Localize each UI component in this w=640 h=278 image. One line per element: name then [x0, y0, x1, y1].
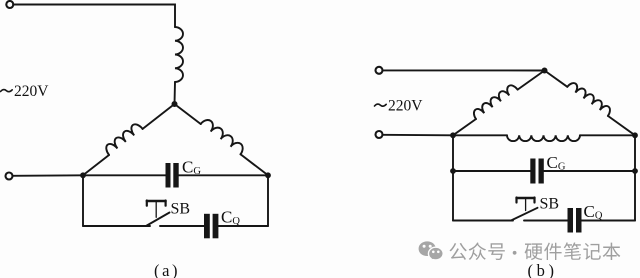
wire middle rail left to CG (b) [453, 170, 530, 172]
label ~220V (a) [1, 83, 50, 100]
wire apex to left coil (b) [518, 71, 545, 90]
label ~220V (b) [375, 98, 424, 115]
inductor left winding L2 (a) [106, 124, 142, 155]
wire capacitor CQ to right rail (a) [218, 225, 268, 227]
wire left coil to node A (a) [83, 155, 109, 175]
wire star point to left coil (a) [143, 104, 175, 129]
svg-text:CG: CG [547, 153, 566, 173]
wire T2 to node A (a) [12, 174, 83, 177]
capacitor CQ (a) plates [204, 214, 218, 239]
wire bottom rail middle segment (a) [160, 225, 204, 227]
terminal T2 (circuit a, lower supply terminal) [6, 173, 13, 180]
capacitor CG (b) plates [530, 159, 544, 184]
wire node C down to bottom rail (b) [452, 135, 454, 220]
wire bottom coil to node D (b) [580, 134, 635, 136]
wire T4 to node C (b) [382, 134, 453, 137]
wire T3 to apex node (b) [382, 69, 544, 71]
svg-text:CG: CG [182, 158, 201, 178]
inductor bottom winding L6 (b) [507, 135, 580, 141]
inductor main winding L1 (a, vertical) [175, 27, 183, 82]
wire apex to right coil (b) [545, 71, 568, 87]
node middle rail right (b) [632, 168, 638, 174]
wire node D down to bottom rail (b) [634, 135, 636, 220]
wire node A down (a) [82, 175, 84, 226]
inductor left winding L4 (b) [474, 85, 518, 119]
wire capacitor CQ to right rail (b) [582, 220, 636, 222]
svg-text:(b): (b) [528, 261, 558, 278]
watermark wechat icon eyes [423, 245, 440, 253]
svg-text:(a): (a) [154, 261, 180, 278]
inductor right winding L5 (b) [567, 83, 610, 116]
inductor right winding L3 (a) [201, 120, 243, 154]
wire star point to right coil (a) [175, 104, 201, 124]
watermark wechat icon [419, 241, 444, 260]
svg-text:SB: SB [171, 201, 191, 218]
wire T1 to top of main winding (a) [13, 5, 175, 28]
watermark text 公众号·硬件笔记本 (as paths) [450, 242, 621, 260]
wire coil L1 bottom to star point (a) [174, 82, 177, 104]
terminal T1 (circuit a, upper supply terminal) [6, 1, 13, 8]
switch SB (a) pushbutton [146, 201, 170, 227]
terminal T3 (circuit b, upper supply terminal) [376, 67, 383, 74]
node C (b) [450, 132, 456, 138]
node middle rail left (b) [450, 168, 456, 174]
wire left coil to node C (b) [453, 119, 476, 135]
wire bottom rail left segment (b) [453, 220, 513, 222]
wire right coil to node B (a) [241, 154, 269, 175]
svg-text:SB: SB [540, 196, 560, 213]
node star point (a) [172, 101, 178, 107]
wire capacitor CG to node B (a) [179, 174, 268, 176]
wire bottom rail left segment (a) [83, 225, 150, 227]
svg-text:CQ: CQ [221, 208, 240, 228]
svg-text:CQ: CQ [584, 202, 603, 222]
svg-text:220V: 220V [14, 83, 49, 100]
node A (a) [80, 172, 86, 178]
wire node C to bottom coil (b) [453, 134, 507, 136]
node D (b) [632, 132, 638, 138]
wire node B down (a) [267, 175, 269, 226]
wire node A to capacitor CG (a) [83, 174, 166, 176]
wire right coil to node D (b) [608, 116, 635, 135]
wire bottom rail middle segment (b) [524, 220, 568, 222]
terminal T4 (circuit b, lower supply terminal) [376, 131, 383, 138]
svg-text:220V: 220V [388, 98, 423, 115]
capacitor CG (a) plates [166, 163, 179, 188]
node apex (b) [542, 68, 548, 74]
node B (a) [265, 172, 271, 178]
capacitor CQ (b) plates [568, 208, 582, 233]
switch SB (b) pushbutton [511, 198, 538, 221]
wire CG to middle rail right (b) [544, 170, 635, 172]
